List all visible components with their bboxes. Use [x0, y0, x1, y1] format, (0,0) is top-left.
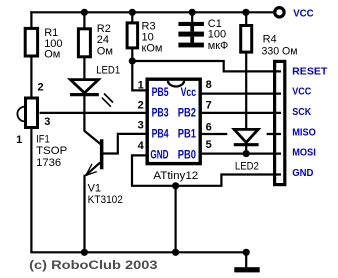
svg-text:PB1: PB1 [178, 129, 197, 141]
wire left column R1/IF1 to ground rail [30, 11, 32, 252]
svg-text:PB0: PB0 [178, 149, 196, 161]
wire IF1 output to IC pin 2 [40, 112, 147, 114]
wire IC pin 8 Vcc to connector VCC [202, 92, 282, 94]
wire VCC top rail [30, 11, 273, 13]
IR receiver IF1 lens [17, 107, 24, 122]
resistor R3 [127, 23, 138, 48]
ground symbol [234, 267, 259, 272]
junction dot rail GND drop [172, 249, 179, 256]
svg-text:MISO: MISO [292, 126, 316, 138]
junction dot LED2/MOSI [243, 150, 250, 157]
wire IC pin 7 to connector SCK [202, 112, 282, 114]
svg-text:кОм: кОм [142, 42, 163, 54]
wire C1 top lead [191, 12, 193, 22]
svg-text:KT3102: KT3102 [88, 194, 123, 206]
wire ground bottom rail [30, 251, 246, 253]
wire V1 emitter to ground rail [85, 162, 101, 252]
svg-text:IF1: IF1 [36, 134, 50, 146]
junction dot rail R3 [129, 9, 136, 16]
svg-text:LED2: LED2 [235, 160, 259, 172]
LED1 light arrows [102, 94, 113, 107]
svg-text:RESET: RESET [292, 65, 328, 77]
svg-text:мкФ: мкФ [208, 40, 229, 52]
wire IC pin 6 to connector MISO [202, 133, 282, 135]
svg-text:7: 7 [206, 99, 212, 111]
LED1 triangle [70, 80, 98, 93]
svg-text:4: 4 [138, 140, 145, 152]
wire R4 to LED2 column [245, 12, 247, 129]
junction dot rail end [243, 249, 250, 256]
junction dot rail R2 [81, 9, 88, 16]
capacitor C1 stub 1 [190, 26, 194, 32]
svg-text:2: 2 [138, 100, 144, 112]
svg-text:MOSI: MOSI [292, 147, 316, 159]
VCC terminal [275, 8, 284, 17]
wire V1 base to IC pin 3 [103, 134, 147, 154]
svg-text:1: 1 [16, 134, 22, 146]
svg-text:V1: V1 [88, 182, 101, 194]
svg-text:3: 3 [138, 120, 144, 132]
svg-text:2: 2 [38, 82, 44, 94]
svg-text:1736: 1736 [36, 157, 61, 169]
junction dot RESET node [129, 57, 136, 64]
capacitor C1 plate 3 [178, 43, 204, 48]
LED2 triangle [234, 129, 258, 142]
svg-text:Ом: Ом [44, 49, 60, 61]
svg-text:3: 3 [44, 116, 50, 128]
svg-text:ATtiny12: ATtiny12 [153, 170, 198, 182]
svg-text:PB5: PB5 [152, 87, 169, 99]
svg-text:VCC: VCC [292, 86, 311, 98]
svg-text:GND: GND [150, 149, 168, 161]
resistor R1 [25, 28, 37, 56]
resistor R2 [78, 29, 90, 57]
capacitor C1 plate 2 [178, 32, 204, 37]
IR receiver IF1 body [26, 98, 38, 128]
wire RESET net to connector [132, 61, 281, 71]
svg-text:6: 6 [206, 121, 212, 133]
svg-text:GND: GND [292, 167, 314, 179]
LED2 cathode bar [234, 143, 259, 146]
svg-text:Ом: Ом [97, 45, 113, 57]
svg-text:PB3: PB3 [152, 108, 169, 120]
transistor V1 base bar [100, 139, 104, 169]
svg-text:1: 1 [138, 80, 144, 92]
svg-text:(c) RoboClub 2003: (c) RoboClub 2003 [29, 258, 158, 272]
svg-text:LED1: LED1 [96, 64, 120, 76]
svg-text:100: 100 [208, 29, 226, 41]
junction dot rail C1 [189, 9, 196, 16]
wire IC pin 5 to connector MOSI [202, 153, 282, 155]
svg-text:8: 8 [206, 79, 212, 91]
op IC U1 ATtiny12 body [147, 79, 200, 163]
wire IC pin 4 GND to connector GND [132, 155, 281, 185]
svg-text:VCC: VCC [293, 7, 314, 19]
svg-text:Vcc: Vcc [181, 87, 197, 99]
svg-text:R4: R4 [263, 34, 277, 46]
wire GND junction down to rail [175, 186, 177, 253]
capacitor C1 plate 1 [178, 22, 204, 26]
svg-text:330 Ом: 330 Ом [262, 45, 298, 57]
svg-text:5: 5 [206, 139, 212, 151]
svg-text:PB4: PB4 [152, 129, 169, 141]
LED1 cathode bar [70, 93, 99, 96]
junction dot rail emitter [81, 249, 88, 256]
transistor V1 emitter arrowhead [86, 164, 97, 176]
junction dot rail R4 [242, 9, 249, 16]
svg-text:TSOP: TSOP [36, 145, 67, 157]
junction dot GND net [172, 182, 179, 189]
resistor R4 [241, 26, 252, 53]
wire LED2 cathode to MOSI wire [245, 145, 247, 154]
capacitor C1 stub 2 [190, 37, 194, 43]
wire R3 column to IC pin 1 [132, 12, 146, 90]
svg-text:PB2: PB2 [178, 108, 196, 120]
wire ground symbol stub [245, 252, 247, 267]
IC notch [168, 81, 184, 87]
wire R2 to LED1 cathode column [83, 12, 85, 131]
connector X1 body [275, 61, 285, 184]
svg-text:SCK: SCK [292, 106, 311, 118]
wire LED1 cathode to Q collector [84, 131, 101, 145]
